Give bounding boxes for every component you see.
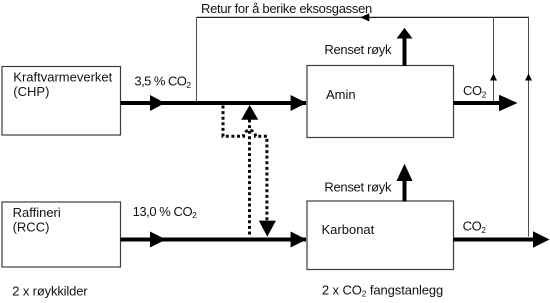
wire return line vertical left into CHP flue line — [196, 17, 198, 101]
svg-text:(CHP): (CHP) — [13, 84, 49, 99]
arrowhead mid on RCC line — [150, 232, 166, 248]
arrowhead up on Karbonat riser — [525, 74, 532, 81]
wire thick CO2 output line from Karbonat — [454, 238, 535, 242]
svg-text:Renset røyk: Renset røyk — [324, 42, 392, 57]
svg-text:2 x CO2 fangstanlegg: 2 x CO2 fangstanlegg — [322, 283, 443, 299]
label Raffineri (RCC) — [13, 205, 61, 235]
wire dashed crossover from CHP line to Karbonat line — [223, 106, 267, 222]
svg-text:13,0 % CO2: 13,0 % CO2 — [133, 204, 198, 220]
svg-text:CO2: CO2 — [463, 219, 487, 235]
arrowhead CO2 out of Karbonat — [533, 231, 550, 248]
arrowhead into Karbonat — [291, 232, 307, 248]
wire return riser from Karbonat CO2 line — [528, 17, 530, 236]
box Amin — [307, 66, 454, 138]
svg-text:CO2: CO2 — [463, 83, 487, 99]
arrowhead up into CHP flue line — [241, 105, 258, 120]
box Kraftvarmeverket (CHP) — [2, 67, 121, 136]
arrowhead mid on CHP line — [150, 95, 165, 111]
arrowhead up on Amin riser — [490, 74, 497, 81]
wire thick CO2 output line from Amin — [454, 101, 501, 105]
box Raffineri (RCC) — [2, 202, 121, 267]
svg-text:Raffineri: Raffineri — [13, 205, 61, 220]
arrowhead left on return line — [360, 13, 369, 21]
wire thick flue-gas line CHP to Amin — [121, 101, 307, 105]
svg-text:Kraftvarmeverket: Kraftvarmeverket — [13, 69, 112, 84]
svg-text:Karbonat: Karbonat — [322, 222, 375, 237]
wire dashed crossover from RCC line to CHP line — [248, 120, 251, 237]
wire thick flue-gas line RCC to Karbonat — [121, 238, 307, 242]
wire return line horizontal top — [197, 16, 530, 18]
svg-text:Retur for å berike eksosgassen: Retur for å berike eksosgassen — [201, 1, 372, 16]
arrowhead CO2 out of Amin — [499, 95, 518, 112]
svg-text:(RCC): (RCC) — [13, 220, 50, 235]
arrow Renset røyk from Karbonat — [397, 164, 413, 202]
arrow Renset røyk from Amin — [397, 28, 413, 66]
label Kraftvarmeverket (CHP) — [13, 69, 112, 99]
wire return riser from Amin CO2 line — [493, 17, 495, 101]
svg-text:Amin: Amin — [326, 87, 356, 102]
svg-text:3,5 % CO2: 3,5 % CO2 — [134, 74, 191, 90]
svg-text:2 x røykkilder: 2 x røykkilder — [12, 284, 88, 299]
arrowhead down into RCC flue line — [259, 221, 276, 237]
arrowhead into Amin — [291, 95, 307, 111]
svg-text:Renset røyk: Renset røyk — [324, 180, 392, 195]
box Karbonat — [307, 201, 454, 270]
